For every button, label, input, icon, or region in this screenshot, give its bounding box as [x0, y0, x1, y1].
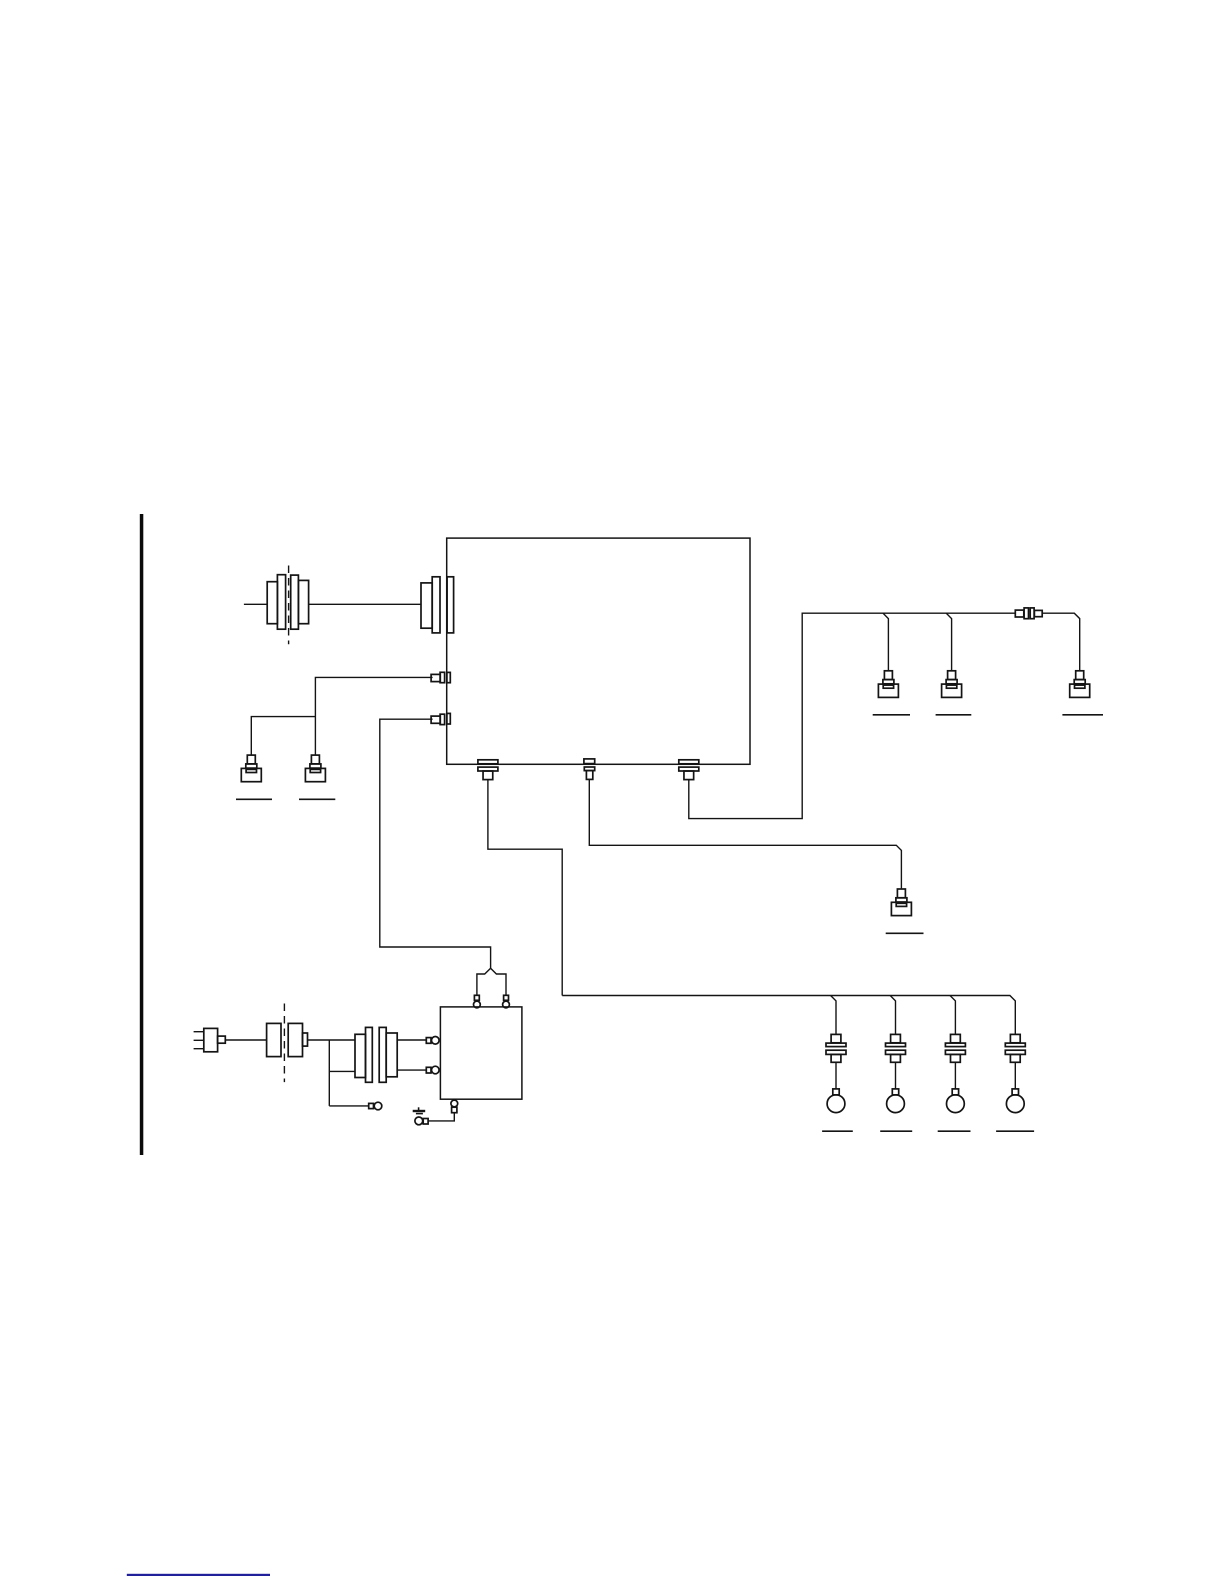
box bottom connector 2 — [584, 759, 595, 779]
noise filter plates — [355, 1027, 397, 1082]
ground lug — [415, 1117, 428, 1125]
power connector mating line (dashed) — [283, 1004, 285, 1083]
power unit top terminal left — [474, 995, 481, 1008]
power connector half right — [288, 1023, 307, 1056]
box bottom connector 3 — [679, 760, 699, 780]
wire drop lamp3 — [950, 996, 955, 1035]
wire — [428, 1113, 454, 1121]
wire — [589, 779, 901, 888]
connector C1 — [878, 671, 898, 698]
label line — [936, 714, 972, 716]
label line — [886, 932, 924, 934]
terminal to power unit upper — [426, 1037, 439, 1045]
label line — [822, 1130, 853, 1132]
wire drop 1 — [883, 613, 888, 670]
ground symbol — [413, 1107, 426, 1113]
connector half (left plug) — [267, 575, 285, 630]
wire drop 2 — [946, 613, 951, 670]
terminal to power unit lower — [426, 1066, 439, 1074]
wire — [309, 603, 421, 605]
terminal 1 on box left edge — [431, 672, 450, 682]
connector C3 — [1070, 671, 1090, 698]
wire — [488, 780, 562, 996]
AC plug — [204, 1028, 226, 1051]
wire — [397, 1069, 426, 1071]
connector mating line (dashed) — [288, 566, 290, 645]
lamp 2 — [886, 1034, 906, 1112]
wire — [315, 677, 432, 754]
label line — [299, 798, 335, 800]
change bar — [140, 514, 144, 1155]
terminal lug — [369, 1102, 382, 1110]
wire — [329, 1105, 368, 1107]
label line — [880, 1130, 912, 1132]
connector at box edge — [421, 577, 454, 633]
label line — [938, 1130, 971, 1132]
connector half (right plug) — [291, 575, 309, 629]
power unit box — [440, 1007, 522, 1099]
lamp 3 — [945, 1034, 965, 1112]
plug prong — [194, 1039, 204, 1041]
wire — [225, 1039, 266, 1041]
terminal 2 on box left edge — [431, 713, 450, 724]
wire drop lamp2 — [890, 996, 895, 1035]
control unit box — [447, 538, 750, 764]
feeder wire to lamps — [562, 996, 1015, 1035]
wire — [308, 1039, 356, 1041]
wire — [689, 613, 1016, 818]
plug prong — [194, 1031, 204, 1033]
label line — [236, 798, 272, 800]
label line — [1062, 714, 1103, 716]
connector A — [241, 755, 261, 782]
label line — [996, 1130, 1034, 1132]
wire Y left — [477, 968, 491, 995]
footer rule — [127, 1574, 270, 1576]
power connector half left — [267, 1023, 281, 1056]
lamp 1 — [826, 1034, 846, 1112]
box bottom connector 1 — [478, 760, 498, 780]
lamp 4 — [1005, 1034, 1025, 1112]
inline connector pair — [1015, 608, 1042, 619]
wire — [1042, 613, 1080, 670]
wire junction drop — [328, 1040, 330, 1106]
wire Y right — [491, 968, 506, 995]
label line — [873, 714, 910, 716]
wire — [397, 1039, 426, 1041]
power unit top terminal right — [503, 995, 510, 1008]
power unit bottom terminal — [451, 1100, 458, 1113]
plug prong — [194, 1048, 204, 1050]
wire drop lamp1 — [831, 996, 836, 1035]
connector B — [305, 755, 325, 782]
connector C2 — [942, 671, 962, 698]
wire — [380, 719, 491, 968]
wire — [329, 1070, 355, 1072]
wire — [244, 603, 267, 605]
connector M — [891, 889, 911, 916]
wire — [251, 717, 315, 755]
